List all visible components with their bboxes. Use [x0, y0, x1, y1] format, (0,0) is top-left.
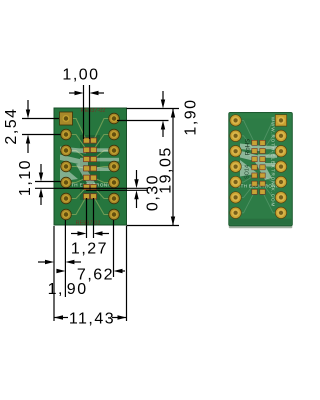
svg-text:SO14: SO14: [245, 165, 251, 179]
svg-text:RE937-02: RE937-02: [81, 108, 106, 114]
svg-text:RoHS: RoHS: [245, 139, 252, 156]
svg-text:1,00: 1,00: [62, 67, 99, 84]
svg-text:RE937-02: RE937-02: [76, 221, 101, 227]
svg-text:WWW.ROTH-ELEKTRONIK.COM: WWW.ROTH-ELEKTRONIK.COM: [270, 117, 275, 207]
svg-text:90: 90: [67, 281, 88, 298]
svg-text:1,27: 1,27: [71, 241, 108, 258]
svg-text:0,30: 0,30: [145, 174, 162, 211]
svg-text:1,: 1,: [48, 281, 64, 298]
svg-text:11,43: 11,43: [69, 311, 115, 328]
svg-text:1,10: 1,10: [17, 159, 34, 196]
svg-text:1,90: 1,90: [183, 98, 200, 135]
svg-text:2,54: 2,54: [3, 107, 20, 144]
